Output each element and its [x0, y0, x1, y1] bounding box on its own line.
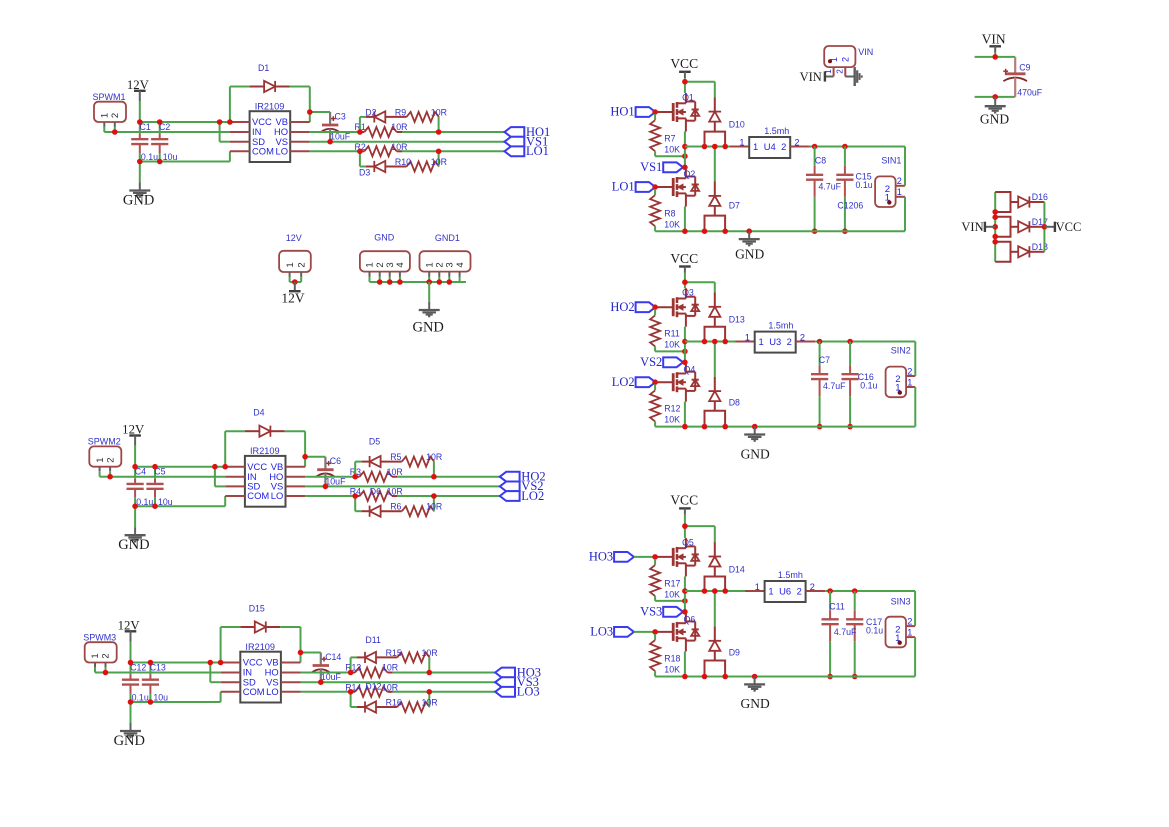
- svg-text:R18: R18: [664, 653, 680, 663]
- svg-text:2: 2: [797, 585, 802, 596]
- svg-text:R10: R10: [395, 157, 411, 167]
- svg-text:Q6: Q6: [684, 614, 696, 624]
- svg-text:COM: COM: [243, 686, 265, 697]
- svg-text:VIN: VIN: [800, 70, 822, 84]
- svg-text:2: 2: [907, 366, 912, 376]
- svg-text:4.7uF: 4.7uF: [823, 381, 846, 391]
- svg-text:VS2: VS2: [640, 355, 662, 369]
- svg-text:GND1: GND1: [435, 233, 460, 243]
- svg-text:D5: D5: [369, 436, 380, 446]
- svg-text:1: 1: [768, 585, 773, 596]
- svg-text:10R: 10R: [387, 487, 403, 497]
- svg-text:VS1: VS1: [640, 160, 662, 174]
- svg-text:2: 2: [836, 69, 845, 74]
- svg-text:2: 2: [841, 57, 851, 62]
- svg-text:1: 1: [285, 262, 296, 267]
- svg-text:SIN2: SIN2: [891, 346, 911, 356]
- svg-text:R17: R17: [664, 578, 680, 588]
- svg-text:Q3: Q3: [682, 287, 694, 297]
- svg-text:D16: D16: [1032, 192, 1048, 202]
- svg-text:1: 1: [829, 57, 839, 62]
- svg-text:LO1: LO1: [612, 180, 635, 194]
- svg-text:HO3: HO3: [589, 550, 613, 564]
- svg-text:1: 1: [897, 187, 902, 197]
- svg-text:SPWM3: SPWM3: [83, 633, 116, 643]
- svg-text:D13: D13: [729, 315, 745, 325]
- svg-text:D18: D18: [1032, 242, 1048, 252]
- svg-text:10R: 10R: [422, 648, 438, 658]
- svg-text:C1206: C1206: [837, 201, 863, 211]
- svg-text:C14: C14: [325, 652, 341, 662]
- svg-text:10R: 10R: [387, 467, 403, 477]
- svg-text:GND: GND: [412, 319, 443, 335]
- svg-text:10R: 10R: [426, 502, 442, 512]
- svg-text:R16: R16: [386, 697, 402, 707]
- svg-text:1: 1: [907, 628, 912, 638]
- svg-text:4: 4: [395, 262, 406, 267]
- svg-text:2: 2: [101, 653, 112, 658]
- svg-text:VIN: VIN: [961, 220, 983, 234]
- svg-text:R14: R14: [345, 683, 361, 693]
- svg-text:10uF: 10uF: [330, 132, 351, 142]
- svg-text:12V: 12V: [281, 291, 305, 306]
- svg-text:LO2: LO2: [521, 489, 544, 503]
- svg-text:1: 1: [90, 653, 101, 658]
- svg-text:VCC: VCC: [1056, 220, 1082, 234]
- svg-text:10K: 10K: [664, 219, 680, 229]
- svg-text:COM: COM: [252, 146, 274, 157]
- svg-text:1.5mh: 1.5mh: [764, 126, 789, 136]
- svg-text:1: 1: [753, 141, 758, 152]
- svg-text:C6: C6: [330, 456, 341, 466]
- svg-text:C11: C11: [829, 602, 845, 612]
- svg-text:1: 1: [745, 333, 750, 343]
- svg-text:SPWM2: SPWM2: [88, 437, 121, 447]
- svg-text:1.5mh: 1.5mh: [778, 570, 803, 580]
- svg-text:IR2109: IR2109: [255, 102, 285, 112]
- svg-text:10R: 10R: [382, 683, 398, 693]
- svg-text:VS3: VS3: [640, 604, 662, 618]
- svg-text:R7: R7: [664, 133, 675, 143]
- svg-text:1: 1: [739, 138, 744, 148]
- svg-text:10R: 10R: [431, 107, 447, 117]
- svg-text:D2: D2: [365, 108, 376, 118]
- svg-text:GND: GND: [740, 696, 769, 711]
- svg-text:R8: R8: [664, 208, 675, 218]
- svg-text:0.1u: 0.1u: [866, 625, 883, 635]
- svg-text:C7: C7: [819, 355, 830, 365]
- svg-text:D6: D6: [370, 487, 381, 497]
- svg-text:LO: LO: [271, 490, 284, 501]
- svg-text:470uF: 470uF: [1017, 87, 1043, 97]
- svg-text:LO1: LO1: [526, 144, 549, 158]
- svg-text:SIN3: SIN3: [891, 597, 911, 607]
- svg-text:GND: GND: [980, 111, 1009, 126]
- svg-text:R11: R11: [664, 329, 680, 339]
- svg-text:D14: D14: [729, 564, 745, 574]
- svg-text:10K: 10K: [664, 589, 680, 599]
- svg-text:1: 1: [759, 336, 764, 347]
- svg-text:10R: 10R: [382, 663, 398, 673]
- svg-text:2: 2: [787, 336, 792, 347]
- svg-text:R12: R12: [664, 404, 680, 414]
- svg-text:R13: R13: [345, 663, 361, 673]
- svg-text:10R: 10R: [422, 697, 438, 707]
- svg-text:R15: R15: [386, 648, 402, 658]
- svg-text:D8: D8: [729, 398, 740, 408]
- svg-text:10K: 10K: [664, 664, 680, 674]
- svg-text:D1: D1: [258, 63, 269, 73]
- svg-text:1: 1: [755, 582, 760, 592]
- svg-text:D10: D10: [729, 120, 745, 130]
- svg-text:SPWM1: SPWM1: [93, 92, 126, 102]
- svg-text:D3: D3: [359, 168, 370, 178]
- svg-text:10R: 10R: [431, 157, 447, 167]
- svg-text:VCC: VCC: [670, 56, 698, 71]
- svg-text:D11: D11: [365, 635, 381, 645]
- svg-text:U4: U4: [764, 141, 776, 152]
- svg-text:SIN1: SIN1: [881, 156, 901, 166]
- svg-text:LO: LO: [275, 146, 288, 157]
- svg-text:2: 2: [105, 457, 116, 462]
- svg-text:D15: D15: [249, 604, 265, 614]
- svg-text:R6: R6: [390, 502, 401, 512]
- svg-text:2: 2: [296, 262, 307, 267]
- svg-text:10K: 10K: [664, 340, 680, 350]
- svg-text:Q4: Q4: [684, 365, 696, 375]
- svg-text:C8: C8: [815, 156, 826, 166]
- svg-text:GND: GND: [374, 233, 395, 243]
- svg-text:Q5: Q5: [682, 537, 694, 547]
- svg-text:C9: C9: [1019, 63, 1030, 73]
- svg-text:LO3: LO3: [517, 685, 540, 699]
- svg-text:2: 2: [907, 617, 912, 627]
- svg-text:GND: GND: [114, 733, 145, 749]
- svg-text:10uF: 10uF: [325, 476, 346, 486]
- svg-text:VIN: VIN: [858, 47, 873, 57]
- svg-text:D4: D4: [253, 408, 264, 418]
- svg-text:D12: D12: [365, 682, 381, 692]
- svg-text:HO1: HO1: [610, 105, 634, 119]
- svg-text:HO2: HO2: [610, 300, 634, 314]
- svg-text:2: 2: [781, 141, 786, 152]
- svg-text:2: 2: [110, 113, 121, 118]
- svg-text:GND: GND: [118, 537, 149, 553]
- svg-text:1: 1: [907, 377, 912, 387]
- svg-text:GND: GND: [741, 446, 770, 461]
- svg-text:2: 2: [897, 176, 902, 186]
- svg-text:D7: D7: [729, 201, 740, 211]
- svg-text:10R: 10R: [426, 452, 442, 462]
- svg-text:VIN: VIN: [982, 31, 1006, 46]
- svg-text:1.5mh: 1.5mh: [768, 321, 793, 331]
- svg-text:10R: 10R: [391, 142, 407, 152]
- svg-text:U6: U6: [779, 585, 791, 596]
- svg-text:Q1: Q1: [682, 92, 694, 102]
- svg-text:1: 1: [95, 457, 106, 462]
- svg-text:LO: LO: [266, 686, 279, 697]
- svg-text:IR2109: IR2109: [245, 642, 275, 652]
- svg-text:IR2109: IR2109: [250, 446, 280, 456]
- svg-text:4.7uF: 4.7uF: [834, 627, 857, 637]
- svg-text:R5: R5: [390, 452, 401, 462]
- svg-text:C3: C3: [335, 111, 346, 121]
- svg-text:4: 4: [455, 262, 466, 267]
- svg-text:U3: U3: [769, 336, 781, 347]
- svg-text:VCC: VCC: [670, 493, 698, 508]
- svg-text:0.1u: 0.1u: [860, 380, 877, 390]
- svg-text:LO3: LO3: [590, 625, 613, 639]
- svg-text:LO2: LO2: [612, 375, 635, 389]
- svg-text:4.7uF: 4.7uF: [819, 182, 842, 192]
- svg-text:R9: R9: [395, 107, 406, 117]
- svg-text:1: 1: [100, 113, 111, 118]
- svg-text:0.1u: 0.1u: [856, 180, 873, 190]
- svg-text:GND: GND: [735, 246, 764, 261]
- svg-text:12V: 12V: [286, 233, 302, 243]
- svg-text:GND: GND: [123, 193, 154, 209]
- svg-text:VCC: VCC: [670, 251, 698, 266]
- svg-text:10uF: 10uF: [321, 672, 342, 682]
- svg-text:Q2: Q2: [684, 169, 696, 179]
- svg-text:10K: 10K: [664, 415, 680, 425]
- svg-text:10R: 10R: [391, 122, 407, 132]
- svg-text:10K: 10K: [664, 144, 680, 154]
- svg-text:COM: COM: [247, 490, 269, 501]
- svg-text:D9: D9: [729, 648, 740, 658]
